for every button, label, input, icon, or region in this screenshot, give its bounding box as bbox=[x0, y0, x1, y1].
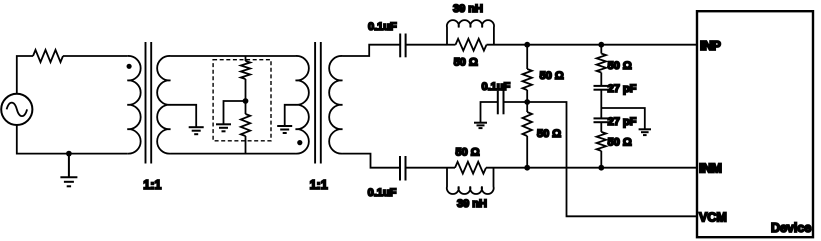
svg-text:50 Ω: 50 Ω bbox=[454, 56, 478, 68]
wire divider top lead bbox=[245, 56, 247, 61]
polarity dot T1 bbox=[127, 64, 132, 69]
transformer T2 primary winding bbox=[296, 56, 309, 154]
transformer T1 secondary winding bbox=[157, 56, 170, 154]
junction INP node A bbox=[524, 42, 530, 48]
wire INM rail (combo to device) bbox=[486, 167, 697, 169]
resistor R3 50 ohm (parallel with L1) bbox=[456, 39, 487, 51]
svg-text:50 Ω: 50 Ω bbox=[608, 136, 632, 148]
node B (VCM node) bbox=[524, 99, 530, 105]
resistor R7 50 ohm (right bottom) bbox=[597, 132, 606, 151]
capacitor C2 0.1uF (bottom) bbox=[400, 156, 406, 181]
svg-text:50 Ω: 50 Ω bbox=[456, 146, 480, 158]
wire T2 secondary top to C1 bbox=[343, 45, 401, 56]
svg-text:39 nH: 39 nH bbox=[453, 3, 483, 15]
T1 center tap wire bbox=[171, 105, 197, 127]
wire source top lead bbox=[17, 56, 33, 94]
ground (C3) bbox=[474, 123, 487, 128]
polarity dot T2 bbox=[297, 140, 302, 145]
junction INM node (right) bbox=[598, 165, 604, 171]
resistor RS bbox=[33, 50, 63, 62]
svg-text:39 nH: 39 nH bbox=[457, 198, 487, 210]
svg-text:VCM: VCM bbox=[699, 210, 727, 224]
svg-text:0.1uF: 0.1uF bbox=[368, 21, 397, 33]
transformer T2 core bbox=[315, 42, 321, 164]
wire node to divider ground bbox=[224, 101, 246, 124]
junction source ground node bbox=[66, 151, 72, 157]
capacitor C5 27 pF (bottom) bbox=[594, 118, 610, 122]
svg-text:50 Ω: 50 Ω bbox=[537, 128, 561, 140]
wire VCM run bbox=[527, 102, 697, 216]
resistor R5 50 ohm (lower shunt) bbox=[523, 112, 532, 136]
wire R7 to INM rail bbox=[600, 151, 602, 168]
ground (T2 center tap) bbox=[277, 126, 292, 133]
device box bbox=[697, 11, 813, 237]
wire C3 right plate to node B bbox=[504, 101, 528, 103]
wire R1 to node bbox=[245, 79, 247, 101]
svg-text:1:1: 1:1 bbox=[310, 178, 328, 192]
wire T1 secondary bottom to T2 primary bottom bbox=[171, 153, 296, 155]
capacitor C1 0.1uF (top) bbox=[400, 34, 405, 58]
wire combo to INP rail bbox=[487, 44, 698, 46]
svg-text:1:1: 1:1 bbox=[143, 178, 161, 192]
capacitor C4 27 pF (top) bbox=[594, 86, 610, 90]
wire L/R combo left lead bbox=[447, 44, 456, 46]
wire T2 secondary bottom to C2 bbox=[343, 154, 401, 168]
dashed box (termination network) bbox=[213, 60, 271, 141]
resistor R2 (lower divider) bbox=[241, 114, 250, 136]
resistor R4 50 ohm (upper shunt) bbox=[523, 69, 532, 90]
junction INP node C (right branch top) bbox=[598, 42, 604, 48]
svg-text:Device: Device bbox=[771, 221, 811, 235]
transformer T2 secondary winding bbox=[329, 56, 342, 154]
ground (right branch) bbox=[639, 129, 651, 135]
capacitor C3 0.1uF (mid) bbox=[498, 90, 504, 114]
T2 center tap wire bbox=[285, 105, 296, 126]
wire T1 secondary top to T2 primary top bbox=[171, 55, 296, 57]
node divider midpoint bbox=[243, 98, 249, 104]
inductor L1 39 nH bbox=[447, 20, 494, 45]
ground (T1 center tap) bbox=[189, 127, 204, 134]
junction INM node (left) bbox=[524, 165, 530, 171]
svg-text:50 Ω: 50 Ω bbox=[540, 70, 564, 82]
wire source bottom lead bbox=[17, 125, 128, 154]
svg-text:0.1uF: 0.1uF bbox=[482, 81, 511, 93]
svg-text:INM: INM bbox=[699, 161, 722, 175]
resistor R8 50 ohm (parallel with L2) bbox=[455, 162, 486, 174]
inductor L2 39 nH (below INM rail) bbox=[447, 168, 494, 194]
svg-text:0.1uF: 0.1uF bbox=[368, 187, 397, 199]
ground (divider) bbox=[216, 124, 231, 131]
wire R2 to bottom rail bbox=[245, 136, 247, 154]
wire node A to R4 bbox=[526, 45, 528, 69]
wire R4 to node B bbox=[526, 90, 528, 102]
transformer T1 core bbox=[146, 42, 152, 164]
wire C3 left plate to ground bbox=[481, 102, 498, 123]
svg-text:INP: INP bbox=[700, 39, 721, 53]
svg-text:27 pF: 27 pF bbox=[608, 83, 637, 95]
svg-text:50 Ω: 50 Ω bbox=[608, 60, 632, 72]
svg-text:27 pF: 27 pF bbox=[608, 116, 637, 128]
transformer T1 primary winding bbox=[127, 56, 140, 154]
wire C4 to mid node D bbox=[600, 90, 602, 119]
wire R5 to INM rail bbox=[526, 136, 528, 168]
wire C1 to L1 node bbox=[406, 44, 447, 46]
wire node C to R6 bbox=[600, 45, 602, 54]
AC source VS bbox=[1, 94, 32, 125]
wire C5 to R7 bbox=[600, 122, 602, 132]
wire resistor to T1 primary top bbox=[63, 55, 127, 57]
wire node D to ground bbox=[601, 108, 645, 129]
wire node to R2 bbox=[245, 101, 247, 114]
resistor R1 (upper divider) bbox=[241, 61, 250, 79]
wire node B to R5 bbox=[526, 102, 528, 112]
ground (source) bbox=[60, 154, 77, 187]
resistor R6 50 ohm (right top) bbox=[597, 54, 606, 73]
wire R6 to C4 bbox=[600, 73, 602, 86]
wire INM rail (cap to combo) bbox=[406, 167, 456, 169]
